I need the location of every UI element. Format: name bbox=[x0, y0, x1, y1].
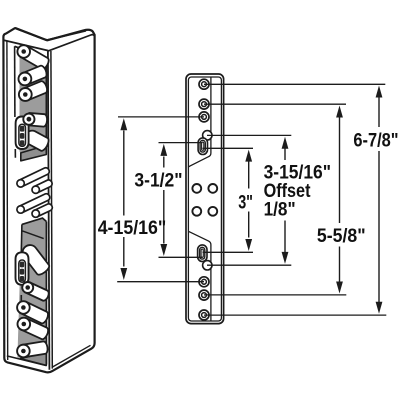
plate outer outline bbox=[186, 74, 224, 324]
leader hole5 bbox=[204, 294, 346, 296]
dimension 3 line bbox=[248, 160, 250, 189]
top channel bottom wedge bbox=[21, 145, 47, 160]
bottom flange edge bbox=[188, 231, 211, 321]
pin P3 bbox=[23, 81, 47, 100]
top channel outline bbox=[15, 46, 47, 146]
bottom channel gray interior bbox=[17, 218, 46, 362]
pill top circle P4 bbox=[23, 114, 34, 125]
keyhole top: inner slots bbox=[200, 140, 205, 152]
left bevel line bbox=[6, 41, 9, 360]
pin P5 bbox=[21, 302, 48, 324]
keyhole bottom: inner slots bbox=[200, 247, 205, 259]
top channel gray interior bbox=[20, 50, 47, 153]
big cylinder top bbox=[25, 131, 49, 151]
front/side face separation edge bbox=[48, 51, 50, 369]
bottom channel top wedge outline bbox=[22, 218, 47, 224]
rod B bbox=[34, 180, 52, 193]
leader hole6 bbox=[204, 314, 386, 316]
hole H2 bbox=[199, 99, 209, 109]
leader slot top right bbox=[203, 147, 254, 149]
leader slot bottom right bbox=[203, 251, 254, 253]
pin P6 bbox=[21, 318, 48, 339]
pin P2 bbox=[23, 66, 47, 85]
svg-text:1/8": 1/8" bbox=[264, 198, 296, 220]
hole H5 bbox=[199, 290, 209, 300]
hole H4 bbox=[199, 277, 209, 287]
lock body silhouette bbox=[3, 28, 94, 372]
hole H3 bbox=[199, 112, 209, 122]
svg-text:6-7/8": 6-7/8" bbox=[353, 129, 398, 151]
dimension 6-7/8 line bbox=[378, 96, 380, 127]
leader slot bottom left bbox=[159, 256, 203, 258]
rod A bbox=[19, 168, 49, 187]
keyhole top: slot bbox=[198, 138, 207, 155]
pin P1 bbox=[21, 46, 49, 69]
rod D bbox=[34, 204, 52, 217]
bottom pill slot bbox=[16, 252, 29, 284]
big cylinder bottom bbox=[23, 245, 50, 275]
middle circles (4) bbox=[192, 184, 201, 193]
top flange edge bbox=[188, 77, 211, 167]
pin P7 bbox=[22, 341, 47, 357]
leader line hole1 bbox=[204, 83, 385, 85]
leader slot top left bbox=[159, 142, 203, 144]
svg-text:3-1/2": 3-1/2" bbox=[134, 170, 182, 192]
pill bottom pin cylinder bbox=[25, 283, 48, 301]
dimension 3-1/2 line bbox=[163, 157, 165, 168]
pin P4 cylinder (on top pill) bbox=[28, 113, 47, 127]
leader keyhole top circle bbox=[207, 134, 291, 136]
dimension 3-15/16 line bbox=[284, 147, 286, 160]
leader hole4 left bbox=[117, 281, 204, 283]
plate inner outline bbox=[188, 77, 221, 321]
svg-text:4-15/16": 4-15/16" bbox=[98, 217, 167, 239]
top pill slot bbox=[16, 117, 29, 150]
svg-text:3": 3" bbox=[238, 191, 253, 213]
bottom inner bevel lines bbox=[7, 356, 47, 366]
dimension 4-15/16 line bbox=[123, 131, 125, 216]
leader line hole2 bbox=[204, 103, 346, 105]
leader line hole3 left bbox=[118, 116, 204, 118]
keyhole bottom: slot bbox=[198, 245, 207, 262]
bottom channel bottom wedge bbox=[20, 352, 46, 365]
leader keyhole bottom circle bbox=[207, 264, 291, 266]
hole H6 bbox=[199, 310, 209, 320]
top face edges bbox=[16, 28, 47, 40]
svg-text:5-5/8": 5-5/8" bbox=[317, 225, 366, 247]
keyhole top: circle bbox=[203, 131, 212, 140]
keyhole bottom: circle bbox=[203, 261, 212, 270]
hole H1 bbox=[199, 79, 209, 89]
dimension 5-5/8 line bbox=[339, 116, 341, 223]
rod C bbox=[19, 194, 50, 213]
